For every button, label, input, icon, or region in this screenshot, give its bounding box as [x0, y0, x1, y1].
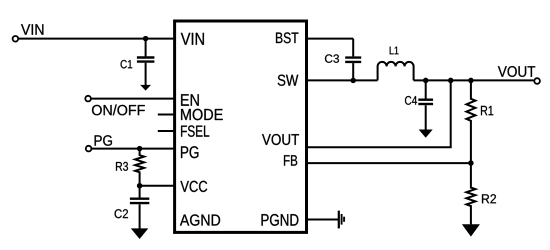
pin label PG — [181, 146, 198, 158]
pin label AGND — [180, 214, 220, 225]
pin label SW — [278, 75, 299, 86]
wire VIN terminal to VIN pin — [19, 38, 174, 40]
node junction VOUT sense riser — [448, 78, 454, 84]
resistor R3 — [116, 149, 144, 186]
pin label BST — [276, 32, 298, 43]
pin label VIN — [181, 33, 204, 45]
node junction R3 top — [137, 146, 143, 152]
wire FSEL pin stub — [158, 130, 174, 132]
node junction C1 on VIN rail — [143, 36, 149, 42]
IC U1 (regulator body) — [175, 21, 307, 232]
node junction C3 bottom on SW wire — [350, 78, 356, 84]
wire VCC pin — [140, 185, 174, 187]
inductor L1 — [378, 47, 414, 81]
pin label FB — [284, 155, 297, 165]
terminal ON/OFF — [85, 96, 145, 116]
terminal PG — [86, 135, 112, 151]
pin label EN — [181, 94, 199, 106]
wire VOUT pin to output rail — [307, 80, 451, 147]
pin label MODE — [181, 109, 223, 120]
ground (C1) — [140, 85, 151, 91]
node junction FB divider — [468, 160, 474, 166]
wire FB pin to divider — [307, 162, 471, 164]
pin label VOUT — [262, 134, 299, 145]
wire ON/OFF to EN pin — [92, 98, 174, 100]
wire SW pin to L1 — [307, 79, 378, 81]
wire MODE pin stub — [158, 114, 174, 116]
ground (C4) — [419, 130, 433, 138]
wire PG terminal to PG pin — [92, 148, 174, 150]
pin label VCC — [180, 181, 207, 192]
terminal VIN — [13, 24, 44, 41]
resistor R1 — [466, 80, 493, 163]
node junction C4 — [423, 78, 429, 84]
ground (C2) — [131, 228, 149, 239]
wire PGND pin — [307, 219, 338, 221]
capacitor C4 — [405, 80, 433, 129]
resistor R2 — [466, 163, 496, 224]
node junction R1 top — [468, 78, 474, 84]
capacitor C2 — [115, 186, 150, 229]
pin label PGND — [262, 214, 299, 226]
ground (PGND chassis bars) — [339, 211, 344, 229]
capacitor C1 — [121, 39, 155, 86]
terminal VOUT — [498, 66, 540, 84]
wire L1 to VOUT terminal — [414, 79, 534, 81]
ground (R2) — [462, 224, 480, 236]
wire BST pin to C3 — [307, 38, 353, 40]
capacitor C3 — [325, 39, 361, 81]
pin label FSEL — [181, 125, 209, 136]
node junction C2/VCC — [137, 183, 143, 189]
